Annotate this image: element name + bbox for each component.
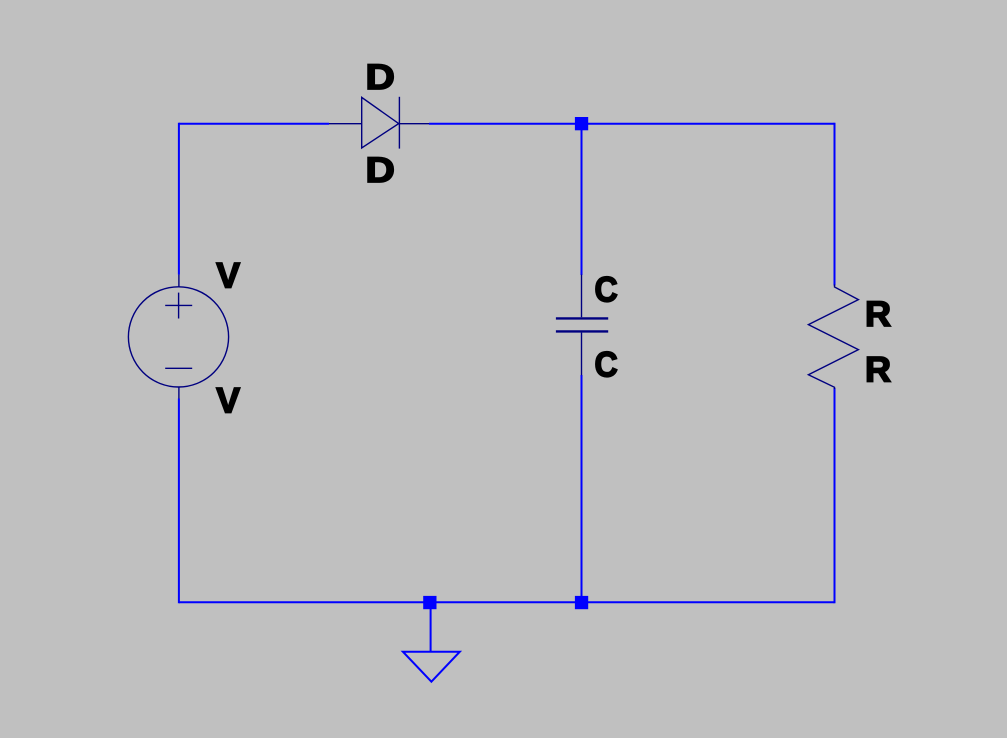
svg-text:R: R	[865, 350, 891, 389]
label R designator	[865, 294, 891, 333]
svg-text:D: D	[366, 152, 395, 191]
junction node at ground tap	[423, 596, 436, 609]
wire right vertical lower (resistor bottom to bottom corner)	[834, 388, 836, 603]
capacitor C symbol	[556, 275, 608, 376]
svg-text:V: V	[216, 257, 240, 296]
wire left vertical lower (source bottom to bottom corner)	[178, 399, 180, 604]
label V designator	[216, 257, 240, 296]
svg-text:V: V	[216, 382, 240, 421]
resistor R symbol	[808, 285, 858, 390]
label R value	[865, 350, 891, 389]
wire top-left horizontal (source to diode anode)	[179, 123, 329, 125]
label D designator	[366, 58, 395, 97]
wire ground stub	[430, 602, 432, 651]
wire middle vertical lower (capacitor to bottom junction)	[581, 375, 583, 602]
junction node at capacitor bottom / ground net	[575, 596, 588, 609]
label C designator	[595, 271, 618, 310]
junction node at diode output / capacitor top	[575, 117, 588, 130]
voltage source V symbol	[128, 275, 228, 399]
label V value	[216, 382, 240, 421]
wire top horizontal (diode cathode to right corner)	[429, 123, 835, 125]
ground symbol	[403, 652, 460, 682]
svg-text:C: C	[595, 346, 618, 385]
wire right vertical upper (to resistor top)	[834, 123, 836, 286]
svg-text:R: R	[865, 294, 891, 333]
svg-text:D: D	[366, 58, 395, 97]
label C value	[595, 346, 618, 385]
wire left vertical upper (top wire down to source top)	[178, 123, 180, 275]
label D value	[366, 152, 395, 191]
wire middle vertical upper (top junction to capacitor)	[581, 124, 583, 275]
svg-text:C: C	[595, 271, 618, 310]
wire bottom horizontal	[179, 601, 835, 603]
diode D symbol	[329, 97, 429, 149]
